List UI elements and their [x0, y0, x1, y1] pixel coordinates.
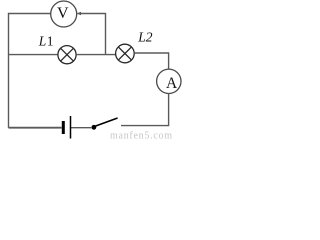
- wire: L2 to ammeter top: [134, 53, 168, 69]
- voltmeter V: [51, 1, 77, 27]
- ammeter A: [157, 69, 181, 93]
- battery positive plate (long): [70, 116, 72, 139]
- wire: voltmeter right, down to L1-L2 node: [78, 14, 106, 55]
- wire: bottom left rail: [9, 127, 62, 129]
- svg-text:L2: L2: [137, 30, 153, 45]
- wire: left rail to L1: [9, 54, 58, 56]
- arrowhead at voltmeter right terminal: [77, 12, 81, 15]
- svg-text:manfen5.com: manfen5.com: [110, 131, 172, 142]
- wire: battery positive to switch: [71, 127, 92, 129]
- lamp L1: [58, 46, 76, 64]
- svg-text:L: L: [38, 33, 47, 48]
- svg-text:A: A: [166, 75, 178, 92]
- battery negative plate (short thick): [62, 121, 65, 134]
- wire: L1 to L2: [76, 54, 116, 56]
- wire: ammeter bottom to lower-right corner to switch contact: [121, 94, 169, 126]
- svg-text:V: V: [57, 5, 69, 22]
- switch lever: [95, 118, 118, 126]
- lamp L2: [116, 44, 135, 63]
- svg-text:1: 1: [47, 33, 54, 48]
- wire: left vertical + top horizontal to voltmeter: [9, 14, 51, 128]
- switch pivot dot: [92, 125, 97, 130]
